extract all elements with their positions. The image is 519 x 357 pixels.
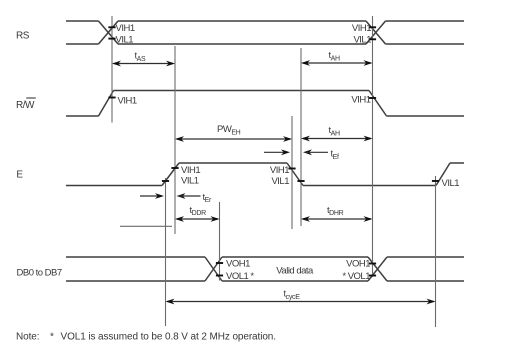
tick RS VIL1 right — [369, 38, 376, 40]
RS left crossover rising — [99, 21, 119, 44]
reference line at E fall VIH1 x=292 — [291, 116, 293, 229]
tick E fall VIL1 — [297, 180, 304, 182]
R/W rising edge — [99, 91, 114, 117]
svg-text:VOH1: VOH1 — [226, 259, 250, 270]
wire R/W left low rail — [66, 115, 99, 117]
wire RS middle low rail — [118, 43, 366, 45]
wire DB right high rail — [387, 256, 464, 258]
wire RS left low rail — [66, 43, 99, 45]
svg-text:VOL1 *: VOL1 * — [226, 271, 254, 282]
wire R/W high rail — [114, 90, 370, 92]
svg-text:VIH1: VIH1 — [118, 96, 137, 107]
dimension PWEH arrow — [175, 136, 292, 142]
tick DB VOH1 left — [216, 262, 223, 264]
wire DB left low rail — [66, 280, 205, 282]
E second rising edge — [436, 163, 450, 186]
wire E low rail — [303, 185, 436, 187]
tick RS VIH1 right — [369, 26, 376, 28]
svg-text:* VOL1: * VOL1 — [342, 271, 370, 282]
tick E rise VIL1 — [162, 180, 169, 182]
svg-text:VIH1: VIH1 — [116, 23, 135, 34]
wire DB valid high rail — [222, 256, 368, 258]
wire DB right low rail — [387, 280, 464, 282]
svg-text:VIL1: VIL1 — [181, 175, 199, 186]
svg-text:VIH1: VIH1 — [352, 23, 371, 34]
RS right crossover falling — [366, 21, 386, 44]
reference line at E fall VIL1 x=301 — [300, 48, 302, 226]
tick R/W VIH1 right — [369, 97, 376, 99]
svg-text:VIL1: VIL1 — [353, 35, 371, 46]
svg-text:E: E — [16, 170, 23, 181]
reference line at next E rise x=435.5 — [435, 176, 437, 327]
tick DB VOH1 right — [369, 263, 376, 265]
wire RS left high rail — [66, 20, 99, 22]
dimension tcycE arrow — [166, 299, 436, 305]
dimension tDDR arrow — [175, 216, 220, 222]
wire E high rail — [179, 162, 287, 164]
wire R/W right low rail — [387, 115, 465, 117]
RS left crossover falling — [99, 21, 119, 44]
reference line at E rise VIH1 x=175 — [174, 46, 176, 234]
svg-text:RS: RS — [16, 31, 30, 42]
svg-text:Valid data: Valid data — [276, 266, 314, 277]
DB left crossover rising — [205, 257, 222, 281]
DB right crossover falling — [368, 257, 387, 281]
signal label R/W with overline — [16, 98, 36, 111]
wire RS middle high rail — [118, 20, 366, 22]
wire RS right low rail — [386, 43, 465, 45]
tick E second rise VIL1 — [432, 180, 439, 182]
RS right crossover rising — [366, 21, 386, 44]
wire RS right high rail — [386, 20, 465, 22]
DB left crossover falling — [205, 257, 222, 281]
svg-text:VIL1: VIL1 — [116, 35, 134, 46]
svg-text:VIH1: VIH1 — [181, 165, 200, 176]
svg-text:VIH1: VIH1 — [270, 165, 289, 176]
reference line at data valid x=219.5 — [219, 202, 221, 281]
dimension tEf arrow right part — [303, 149, 328, 155]
DB right crossover rising — [368, 257, 387, 281]
reference line at RS/RW/DB hold x=372.5 — [372, 16, 374, 277]
tick DB VOL1 right — [369, 275, 376, 277]
reference line at E rise VIL1 x=165.5 — [165, 178, 167, 326]
dimension tEr arrow left part — [140, 193, 164, 199]
dimension tDHR arrow — [301, 216, 373, 222]
svg-text:DB0 to DB7: DB0 to DB7 — [17, 268, 62, 279]
wire DB left high rail — [66, 256, 205, 258]
dimension tEf arrow left part — [264, 149, 290, 155]
tick RS VIH1 left — [108, 26, 115, 28]
wire DB valid low rail — [222, 280, 368, 282]
dimension tAH arrow top — [301, 60, 373, 66]
svg-text:VOH1: VOH1 — [346, 259, 370, 270]
R/W falling edge — [369, 91, 387, 117]
dimension tAS arrow — [112, 61, 175, 67]
wire E right high rail — [450, 162, 464, 164]
dimension tEr arrow right part — [177, 193, 201, 199]
wire E left low rail — [66, 185, 162, 187]
svg-text:VIL1: VIL1 — [271, 176, 289, 187]
tick E fall VIH1 — [288, 168, 295, 170]
svg-text:VIH1: VIH1 — [351, 95, 370, 106]
tick R/W VIH1 left — [108, 97, 115, 99]
tick DB VOL1 left — [216, 275, 223, 277]
E falling edge — [287, 163, 303, 186]
extension segment below E — [120, 225, 172, 227]
svg-text:VIL1: VIL1 — [442, 178, 460, 189]
dimension tAH arrow lower — [301, 136, 373, 142]
tick E rise VIH1 — [171, 167, 178, 169]
svg-text:R/W: R/W — [16, 100, 35, 111]
E rising edge — [162, 163, 179, 186]
reference line at RS/RW transition x=112 — [111, 16, 113, 123]
tick RS VIL1 left — [108, 38, 115, 40]
